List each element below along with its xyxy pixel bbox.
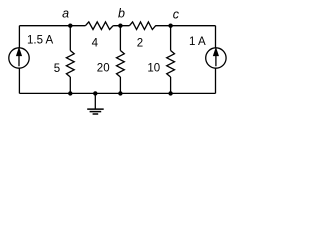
svg-text:2: 2 — [137, 37, 143, 49]
resistor 4 (horizontal zigzag between node a and node b) — [85, 22, 113, 30]
ground bar 2 — [90, 111, 102, 113]
current source I1 arrow (up) — [17, 49, 21, 66]
svg-text:1 A: 1 A — [189, 36, 206, 48]
wire resistor 20 to bottom rail — [119, 77, 121, 93]
svg-text:a: a — [62, 7, 69, 21]
wire node c down to resistor 10 — [170, 26, 172, 51]
ground stem wire — [94, 93, 96, 108]
svg-text:b: b — [118, 7, 125, 21]
junction dot bottom rail below node b — [118, 91, 122, 95]
wire resistor 5 to bottom rail — [69, 77, 71, 93]
node b junction dot (top) — [118, 24, 122, 28]
wire right vertical (top corner down to current source) — [215, 26, 217, 48]
svg-text:5: 5 — [54, 63, 60, 75]
wire resistor 10 to bottom rail — [170, 77, 172, 93]
svg-text:c: c — [173, 7, 180, 21]
wire node b down to resistor 20 — [119, 26, 121, 51]
ground bar 3 — [93, 113, 99, 115]
wire right vertical (current source down to bottom rail) — [215, 68, 217, 93]
resistor 20 (vertical zigzag below node b) — [117, 51, 125, 78]
wire top rail left segment (left corner to resistor 4) — [19, 25, 85, 27]
node a junction dot (top) — [68, 24, 72, 28]
junction dot bottom rail below node a — [68, 91, 72, 95]
wire node a down to resistor 5 — [69, 26, 71, 51]
wire left vertical (top corner down to current source) — [18, 26, 20, 48]
svg-text:10: 10 — [147, 63, 160, 75]
current source I2 arrow (up) — [214, 49, 218, 66]
current source I2 circle (1 A, right) — [206, 48, 226, 68]
wire top rail right segment (resistor 2 to right corner) — [155, 25, 215, 27]
resistor 10 (vertical zigzag below node c) — [167, 51, 175, 78]
svg-text:1.5 A: 1.5 A — [27, 35, 54, 47]
current source I1 circle (1.5 A, left) — [9, 48, 29, 68]
junction dot bottom rail at ground — [93, 91, 97, 95]
junction dot bottom rail below node c — [168, 91, 172, 95]
resistor 2 (horizontal zigzag between node b and node c) — [129, 22, 155, 30]
wire left vertical (current source down to bottom rail) — [18, 68, 20, 93]
svg-text:4: 4 — [92, 38, 99, 50]
ground bar 1 — [87, 108, 104, 110]
wire top rail between resistor 4 and resistor 2 — [113, 25, 129, 27]
wire bottom rail — [19, 92, 215, 94]
node c junction dot (top) — [168, 24, 172, 28]
svg-text:20: 20 — [97, 63, 110, 75]
resistor 5 (vertical zigzag below node a) — [66, 51, 74, 78]
